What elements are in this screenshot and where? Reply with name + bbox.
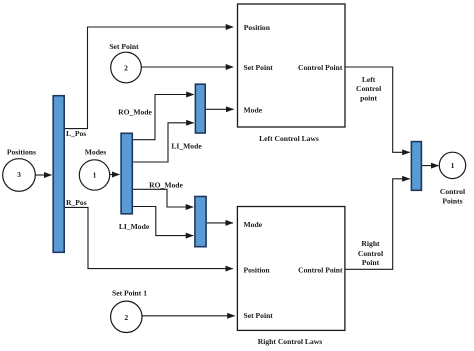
svg-text:LI_Mode: LI_Mode [119, 222, 150, 231]
svg-text:Points: Points [442, 197, 462, 206]
svg-text:Set Point: Set Point [109, 42, 139, 51]
svg-text:Control: Control [356, 84, 381, 93]
svg-text:Right: Right [361, 239, 380, 248]
svg-text:Point: Point [362, 258, 380, 267]
svg-text:2: 2 [124, 313, 128, 322]
svg-text:point: point [360, 93, 377, 102]
svg-text:Mode: Mode [244, 220, 263, 229]
svg-text:1: 1 [451, 161, 455, 170]
svg-text:Set Point: Set Point [244, 311, 274, 320]
svg-text:L_Pos: L_Pos [66, 129, 86, 138]
svg-text:Left: Left [362, 75, 376, 84]
svg-text:RO_Mode: RO_Mode [118, 108, 152, 117]
svg-text:RO_Mode: RO_Mode [149, 181, 183, 190]
svg-text:Control Point: Control Point [298, 266, 343, 275]
svg-text:Left Control Laws: Left Control Laws [259, 134, 319, 143]
svg-text:Set Point: Set Point [244, 63, 274, 72]
svg-text:Mode: Mode [244, 106, 263, 115]
svg-text:2: 2 [124, 64, 128, 73]
svg-text:R_Pos: R_Pos [66, 198, 87, 207]
svg-text:Control: Control [358, 249, 383, 258]
svg-text:Right Control Laws: Right Control Laws [258, 337, 322, 346]
svg-text:Control Point: Control Point [298, 63, 343, 72]
svg-text:LI_Mode: LI_Mode [171, 142, 202, 151]
svg-text:Position: Position [244, 23, 271, 32]
svg-text:Set Point 1: Set Point 1 [112, 289, 147, 298]
svg-text:Positions: Positions [7, 147, 36, 156]
svg-text:Control: Control [440, 187, 465, 196]
svg-text:Modes: Modes [85, 147, 107, 156]
svg-text:Position: Position [244, 266, 271, 275]
svg-text:1: 1 [93, 170, 97, 179]
svg-text:3: 3 [17, 170, 21, 179]
